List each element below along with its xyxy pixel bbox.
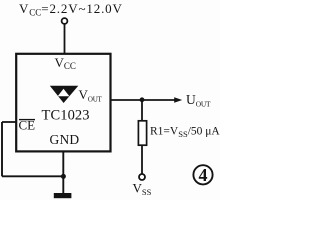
wire node to R1 (141, 100, 143, 121)
op-amp U1 TC1023 box (16, 54, 110, 152)
wire R1 to VSS terminal (141, 145, 143, 174)
resistor R1 body (138, 121, 146, 145)
svg-text:TC1023: TC1023 (42, 107, 90, 123)
wire left vertical down (1, 122, 3, 176)
logo triangle (TelCom) (50, 86, 79, 103)
svg-text:GND: GND (50, 132, 80, 147)
arrowhead UOUT (174, 97, 182, 103)
junction dot (output node) (140, 97, 145, 102)
wire GND down from box (62, 151, 64, 193)
terminal VSS (open circle) (139, 174, 145, 180)
ground symbol (solid bar) (54, 193, 72, 198)
terminal VCC (open circle) (62, 18, 68, 24)
wire CE to left (2, 121, 16, 123)
wire bottom horizontal to junction (2, 175, 64, 177)
wire VOUT to arrow (111, 99, 177, 101)
svg-text:4: 4 (199, 165, 208, 185)
junction dot (ground node) (61, 174, 66, 179)
figure number 4 (circled) (193, 165, 212, 184)
wire VCC vertical (64, 24, 66, 53)
